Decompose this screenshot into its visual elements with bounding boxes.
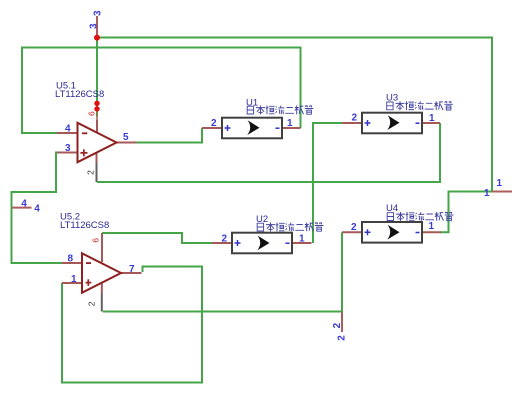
svg-text:1: 1 (429, 221, 435, 232)
U5.1 pin 2 red part (96, 153, 98, 164)
U5.1 triangle (78, 123, 117, 162)
wire U4 pin2 down to net2 junction (341, 232, 343, 311)
wire overlap on pin 6 (96, 104, 98, 117)
U5.2 pin 7 (121, 272, 142, 274)
U5.1 pin 6 wire dots (94, 101, 99, 106)
U1 minus (276, 127, 280, 129)
U4 pin 1 (422, 231, 441, 233)
U5.2 minus mark (86, 262, 91, 264)
U2 pin 2 (212, 242, 232, 244)
U3 plus (365, 120, 371, 126)
svg-text:1: 1 (497, 178, 503, 189)
wire U5.1 pin2 to U3 pin1 (97, 123, 440, 182)
wire U5.1 pin3 to U5.2 pin8 (12, 153, 63, 264)
svg-text:6: 6 (87, 111, 97, 116)
net stub 1 (492, 191, 512, 193)
U3 minus (416, 122, 420, 124)
net stub 3 (96, 16, 98, 38)
U1 box (222, 118, 282, 139)
svg-text:U1: U1 (246, 98, 258, 109)
svg-text:2: 2 (86, 301, 96, 306)
svg-text:2: 2 (211, 118, 217, 129)
U5.2 pin 1 (62, 282, 82, 284)
U4 box (362, 222, 422, 243)
diode U3 (342, 93, 453, 134)
wire U5.2 pin1 feedback to pin7 (62, 267, 202, 383)
svg-text:2: 2 (332, 322, 343, 328)
svg-text:6: 6 (91, 238, 101, 243)
U5.1 pin 3 (57, 152, 78, 154)
U1 plus (225, 125, 231, 131)
svg-text:5: 5 (123, 132, 129, 143)
svg-text:3: 3 (65, 143, 71, 154)
U4 arrow (387, 225, 399, 240)
U5.2 pin 2 red part (101, 283, 103, 293)
svg-text:4: 4 (21, 198, 27, 209)
svg-text:2: 2 (351, 222, 357, 233)
svg-text:4: 4 (34, 203, 40, 214)
U2 box (232, 233, 292, 254)
U3 pin 2 (342, 122, 362, 124)
wire U5.2 pin2 to net2 junction (103, 311, 342, 313)
U5.1 minus mark (82, 132, 87, 134)
U2 plus (235, 240, 241, 246)
U5.1 pin 5 (117, 142, 137, 144)
U2 name CJK (257, 222, 323, 231)
wire U5.1 pin5 to U1 pin2 (137, 128, 203, 143)
svg-text:3: 3 (88, 23, 99, 29)
U2 arrow (257, 236, 269, 251)
U5.2 pin 2 gray part (101, 293, 103, 312)
U4 name CJK (387, 212, 453, 221)
U1 name CJK (247, 105, 313, 114)
net stub 2 (341, 312, 343, 333)
svg-text:1: 1 (71, 274, 77, 285)
wire U5.1 pin4 to U1 pin1 (22, 48, 301, 134)
svg-text:2: 2 (86, 170, 96, 175)
U5.2 plus mark (86, 279, 92, 286)
U1 pin 1 (282, 127, 301, 129)
svg-text:8: 8 (68, 254, 74, 265)
wire net1 to U4 pin1 (440, 192, 492, 233)
U5.2 pin 8 (62, 262, 82, 264)
U3 name CJK (387, 101, 453, 110)
svg-text:2: 2 (222, 234, 228, 245)
svg-text:2: 2 (336, 335, 347, 341)
U5.2 pin 6 (101, 233, 103, 262)
diode U1 (202, 98, 313, 139)
svg-text:1: 1 (287, 118, 293, 129)
svg-text:1: 1 (429, 113, 435, 124)
svg-text:4: 4 (65, 124, 71, 135)
diode U4 (342, 203, 453, 243)
svg-text:3: 3 (93, 10, 104, 16)
diode U2 (212, 214, 323, 253)
svg-text:LT1126CS8: LT1126CS8 (55, 89, 104, 100)
U5.2 triangle (82, 253, 121, 292)
svg-text:1: 1 (484, 188, 490, 199)
svg-text:2: 2 (352, 113, 358, 124)
wire U5.2 pin6 to U2 pin2 (102, 233, 212, 243)
U4 pin 2 (342, 231, 362, 233)
U5.1 pin 6 (96, 104, 98, 132)
svg-text:LT1126CS8: LT1126CS8 (60, 220, 109, 231)
svg-text:7: 7 (129, 264, 135, 275)
U4 plus (365, 229, 371, 235)
U2 minus (286, 242, 290, 244)
U4 minus (416, 232, 420, 234)
op-amp U5.1 (55, 81, 137, 183)
wire net3 top horizontal + right vertical (97, 38, 492, 192)
junction dot net3 (94, 35, 100, 41)
U3 box (362, 113, 422, 134)
U5.1 pin 4 (57, 132, 78, 134)
U2 pin 1 (292, 242, 312, 244)
U1 arrow (247, 120, 259, 135)
net stub 4 (12, 207, 32, 209)
wire net3 down to U5.1 pin6 (96, 38, 98, 117)
op-amp U5.2 (60, 212, 142, 312)
U1 pin 2 (202, 127, 222, 129)
U3 pin 1 (422, 122, 440, 124)
U3 arrow (387, 115, 399, 130)
svg-text:1: 1 (299, 234, 305, 245)
U5.1 plus mark (80, 149, 87, 156)
wire U3 pin2 down to U2 pin1 (313, 123, 342, 243)
U5.1 pin 2 gray part (96, 163, 98, 182)
